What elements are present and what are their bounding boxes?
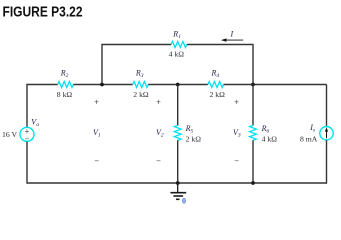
svg-text:I: I [230,30,234,39]
wire left branch lower [26,142,28,184]
arrow inside current source [326,131,328,139]
wire top branch left leg [101,45,103,85]
svg-text:−: − [94,156,99,165]
voltage source 16V circle [20,127,34,141]
ground [177,183,179,192]
wire middle row: left corner to R2 [27,84,58,87]
resistor R4 zigzag [208,82,224,88]
wire top branch right leg [252,45,254,85]
wire left branch upper [26,85,28,128]
svg-text:+: + [156,97,161,106]
wire top branch horizontal left of R1 [101,44,171,46]
svg-text:16 V: 16 V [2,130,17,139]
svg-text:4 kΩ: 4 kΩ [262,135,278,144]
wire top branch horizontal right of R1 [187,44,254,46]
svg-text:2 kΩ: 2 kΩ [210,90,226,99]
resistor R3 zigzag [133,82,149,88]
current arrow I [226,39,244,41]
resistor R1 zigzag [171,42,187,48]
svg-text:0: 0 [182,197,186,206]
resistor R2 zigzag [58,82,74,88]
wire R6 branch upper [252,85,254,126]
svg-text:−: − [156,156,161,165]
node junction ground [176,181,180,185]
wire middle row: R2 to R3 [73,84,132,86]
svg-text:2 kΩ: 2 kΩ [133,90,149,99]
wire bottom row [27,182,327,184]
svg-text:8 mA: 8 mA [300,135,318,144]
svg-text:4 kΩ: 4 kΩ [169,50,185,59]
wire right branch upper [326,85,328,127]
node junction R3/R4/R5 [176,83,180,87]
current source 8mA circle [320,127,333,140]
wire R6 branch lower [252,140,254,183]
svg-text:−: − [234,156,239,165]
svg-text:FIGURE P3.22: FIGURE P3.22 [3,5,83,21]
wire right branch lower [326,140,328,184]
wire R5 branch lower [177,140,179,183]
wire middle row: R4 to right corner [224,84,327,86]
resistor R6 zigzag [250,125,257,140]
svg-text:2 kΩ: 2 kΩ [186,135,202,144]
node junction R4/R1/R6 [251,83,255,87]
node junction R2/R3/top [100,83,104,87]
resistor R5 zigzag [174,125,181,140]
svg-text:8 kΩ: 8 kΩ [57,90,73,99]
wire R5 branch upper [177,85,179,126]
svg-text:+: + [94,97,99,106]
wire middle row: R3 to R4 [148,84,208,86]
svg-text:+: + [234,97,239,106]
node junction R6/bottom [251,181,255,185]
